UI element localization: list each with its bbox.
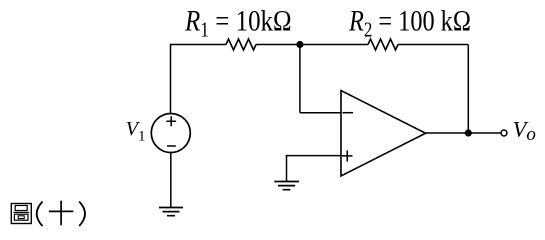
wire non-inverting vertical to ground bbox=[286, 155, 288, 182]
svg-text:V1: V1 bbox=[126, 118, 146, 144]
caption open paren bbox=[37, 202, 43, 227]
wire output bbox=[426, 132, 501, 134]
op-amp plus input label bbox=[342, 150, 353, 161]
wire left vertical (top wire down to V1) bbox=[170, 44, 172, 114]
V1 minus sign bbox=[167, 145, 176, 147]
wire inverting branch vertical bbox=[299, 45, 301, 113]
resistor R1 bbox=[226, 39, 256, 50]
label R2 = 100k ohm bbox=[348, 4, 471, 42]
wire top-left horizontal (V1 to R1) bbox=[171, 44, 227, 46]
source V1 circle bbox=[151, 114, 190, 153]
wire V1 to ground bbox=[170, 153, 172, 208]
wire feedback vertical bbox=[467, 45, 469, 134]
svg-text:R2 = 100 kΩ: R2 = 100 kΩ bbox=[348, 4, 471, 42]
wire R2 to top-right corner bbox=[398, 44, 468, 46]
V1 plus sign bbox=[166, 116, 176, 126]
label R1 = 10k ohm bbox=[184, 3, 292, 42]
resistor R2 bbox=[368, 39, 398, 50]
op-amp minus input label bbox=[343, 112, 354, 114]
caption close paren bbox=[79, 202, 85, 227]
ground (non-inverting input) bbox=[274, 182, 299, 190]
wire inverting branch horizontal bbox=[300, 112, 341, 114]
svg-text:Vo: Vo bbox=[513, 117, 536, 146]
terminal Vo open circle bbox=[501, 130, 507, 136]
ground (below V1) bbox=[159, 208, 183, 216]
caption glyph 圖 bbox=[11, 204, 31, 224]
caption glyph 十 bbox=[49, 201, 73, 226]
svg-text:R1 = 10kΩ: R1 = 10kΩ bbox=[184, 3, 292, 42]
op-amp U1 triangle bbox=[341, 91, 426, 177]
node junction dot at R1/R2 bbox=[296, 41, 303, 48]
wire non-inverting horizontal bbox=[287, 155, 342, 157]
wire R1 to R2 bbox=[256, 44, 368, 46]
node junction dot at output bbox=[465, 129, 472, 136]
